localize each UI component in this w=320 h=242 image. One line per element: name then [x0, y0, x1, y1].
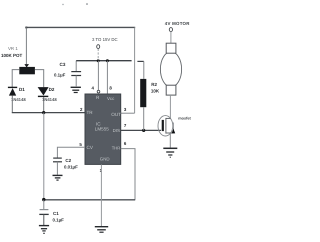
- svg-text:Vcc: Vcc: [107, 96, 115, 101]
- transistor Q1 mosfet: [158, 116, 175, 136]
- wire OUT pin3: [121, 112, 135, 114]
- node Vcc junction: [106, 59, 109, 62]
- diode D1 (pointing up, cathode bar top): [8, 87, 17, 96]
- ground (mosfet): [163, 148, 177, 157]
- wire GND (pin1) down: [100, 164, 102, 226]
- node supply junction: [97, 59, 100, 62]
- capacitor C2: [53, 158, 62, 175]
- svg-text:C1: C1: [53, 211, 59, 216]
- svg-text:DIS: DIS: [113, 128, 120, 133]
- wire D1 cathode down to TR wire: [11, 96, 13, 113]
- ground (C1): [39, 226, 49, 234]
- svg-text:VR 1: VR 1: [8, 46, 18, 51]
- wire mosfet source to ground: [169, 133, 171, 148]
- node junction R2/DIS: [142, 129, 145, 132]
- node junction D2/TR: [42, 111, 45, 114]
- svg-text:1N4148: 1N4148: [42, 97, 57, 102]
- svg-text:OUT: OUT: [111, 112, 121, 117]
- wire OUT riser (pin3 to top rail): [134, 27, 136, 113]
- wire CV (pin5) to C2: [57, 147, 85, 157]
- svg-text:D2: D2: [49, 87, 55, 92]
- terminal motor circle: [169, 28, 172, 32]
- wire TR (pin2) horizontal: [12, 112, 85, 114]
- wire pot wiper riser: [25, 27, 27, 64]
- svg-text:C2: C2: [65, 158, 71, 163]
- svg-text:R2: R2: [151, 82, 157, 87]
- svg-text:CV: CV: [87, 145, 94, 150]
- wire supply rail (left segment, from C3 to OUT riser crossover): [76, 60, 131, 62]
- svg-text:GND: GND: [100, 157, 110, 162]
- resistor R2: [140, 79, 146, 107]
- wire Vcc pin (8) riser: [106, 61, 108, 94]
- ground (C2): [53, 175, 63, 180]
- wire top rail from pot riser to OUT riser: [25, 27, 135, 29]
- wire DIS (pin7) to mosfet gate: [121, 129, 161, 131]
- svg-text:mosfet: mosfet: [178, 117, 191, 121]
- wire bottom rail: [44, 199, 135, 201]
- wire pot right lead: [35, 70, 44, 88]
- svg-text:0.1µF: 0.1µF: [54, 73, 66, 78]
- svg-text:D1: D1: [19, 87, 25, 92]
- pin bubble R (reset): [97, 90, 100, 93]
- wire THR (pin6) loop right: [121, 149, 135, 200]
- capacitor C3: [71, 61, 81, 87]
- svg-text:THR: THR: [112, 146, 121, 151]
- motor M1: [160, 43, 181, 95]
- svg-text:1N4148: 1N4148: [11, 97, 26, 102]
- speck dot top: [62, 3, 87, 5]
- wire D2 cathode down to TR wire: [43, 97, 45, 113]
- svg-text:C3: C3: [60, 62, 66, 67]
- svg-text:0.01µF: 0.01µF: [64, 164, 78, 169]
- wire pot left lead: [12, 70, 19, 88]
- wire supply rail (right segment to R2): [137, 60, 143, 62]
- wire R2 bottom lead: [143, 107, 145, 130]
- svg-text:0.1µF: 0.1µF: [53, 217, 65, 222]
- svg-text:TR: TR: [87, 110, 94, 115]
- svg-text:4V MOTOR: 4V MOTOR: [165, 21, 190, 26]
- node junction C1/bottom rail: [42, 198, 45, 201]
- wire motor to mosfet drain: [169, 95, 171, 118]
- ground (IC pin1): [95, 227, 108, 233]
- wire R pin (4) riser: [97, 61, 99, 91]
- svg-text:100K POT: 100K POT: [1, 53, 23, 58]
- terminal supply circle: [97, 45, 100, 49]
- IC U1 LM555 body: [85, 94, 121, 164]
- wire R2 top lead: [143, 61, 145, 79]
- svg-text:10K: 10K: [151, 89, 160, 94]
- svg-text:3 TO 15V DC: 3 TO 15V DC: [92, 37, 118, 42]
- wire junction down to bottom rail: [43, 113, 45, 200]
- wire supply terminal down: [97, 49, 99, 60]
- svg-text:LM555: LM555: [95, 127, 109, 132]
- diode D2 (pointing down, cathode bar bottom): [38, 87, 49, 97]
- ground (C3): [71, 87, 81, 92]
- wire motor terminal down: [170, 32, 172, 44]
- potentiometer VR1: [19, 64, 35, 74]
- capacitor C1: [39, 200, 48, 225]
